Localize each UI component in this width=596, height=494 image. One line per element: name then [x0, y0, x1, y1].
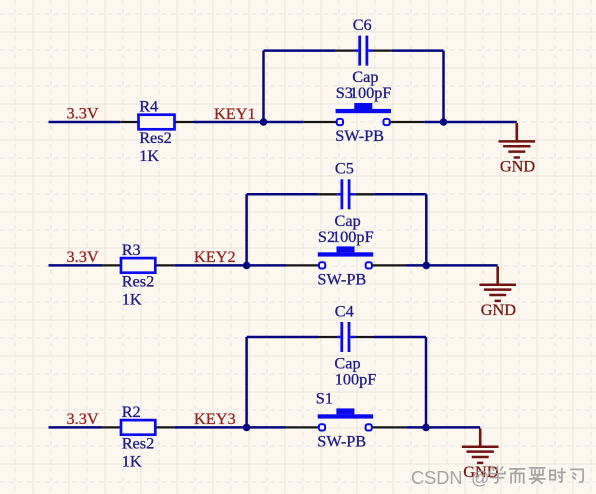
svg-text:Res2: Res2: [122, 434, 155, 453]
svg-text:R4: R4: [139, 97, 158, 116]
ground GND power port (circuit 3): [462, 428, 499, 463]
wire S1 pin 2 to GND corner: [406, 426, 480, 429]
wire net KEY2: R3 to junction: [174, 264, 246, 267]
svg-text:100pF: 100pF: [335, 370, 377, 389]
svg-text:SW-PB: SW-PB: [317, 270, 366, 289]
wire S3 pin 2 to GND corner: [424, 121, 517, 124]
wire C5 loop top left segment: [247, 193, 319, 196]
wire net KEY2: junction to S2 pin 1: [247, 264, 286, 267]
svg-text:Res2: Res2: [122, 272, 155, 291]
junction at KEY2 / C5 left: [243, 262, 251, 270]
wire net KEY3: junction to S1 pin 1: [247, 426, 286, 429]
capacitor C4: [318, 322, 374, 352]
wire C5 loop right vertical: [425, 194, 428, 266]
wire C5 loop top right segment: [374, 193, 426, 196]
resistor R2: [103, 420, 175, 435]
wire C6 loop top right segment: [392, 49, 444, 52]
switch S3 (SW-PB push button): [304, 103, 425, 125]
wire C6 loop right vertical: [442, 51, 445, 123]
wire net KEY3: R2 to junction: [174, 426, 246, 429]
svg-text:C4: C4: [335, 301, 354, 320]
svg-text:CSDN @: CSDN @: [411, 468, 489, 488]
wire C5 loop left vertical: [245, 194, 248, 266]
wire net KEY1: junction to S3 pin 1: [264, 121, 304, 124]
ground GND power port (circuit 1): [499, 123, 536, 158]
svg-text:C5: C5: [335, 159, 354, 178]
wire C4 loop top left segment: [247, 336, 318, 339]
watermark character 习: [571, 469, 583, 482]
svg-text:1K: 1K: [139, 146, 159, 165]
ground GND power port (circuit 2): [479, 266, 516, 301]
wire net 3.3V to R4 pin 1: [49, 121, 121, 124]
resistor R3: [103, 258, 175, 273]
resistor R4: [120, 115, 193, 130]
junction at KEY3 / C4 left: [243, 424, 251, 432]
svg-text:R3: R3: [122, 240, 141, 259]
junction at S2 pin 2 / C5 right: [423, 262, 431, 270]
wire C4 loop left vertical: [245, 337, 248, 428]
svg-text:Res2: Res2: [139, 128, 172, 147]
watermark character 要: [530, 468, 546, 483]
svg-text:1K: 1K: [122, 452, 142, 471]
wire net KEY1: R4 to junction: [194, 121, 264, 124]
svg-text:S1: S1: [316, 389, 333, 408]
svg-text:KEY1: KEY1: [214, 104, 256, 123]
svg-text:KEY3: KEY3: [194, 409, 236, 428]
svg-text:3.3V: 3.3V: [67, 247, 99, 266]
svg-text:1K: 1K: [122, 290, 142, 309]
wire C4 loop right vertical: [425, 337, 428, 428]
svg-text:100pF: 100pF: [350, 83, 392, 102]
svg-text:GND: GND: [481, 300, 517, 319]
watermark character 而: [510, 469, 525, 483]
svg-text:C6: C6: [353, 15, 372, 34]
wire S2 pin 2 to GND corner: [407, 264, 498, 267]
junction at S1 pin 2 / C4 right: [422, 424, 430, 432]
wire C6 loop top left segment: [264, 49, 336, 52]
wire C4 loop top right segment: [374, 336, 426, 339]
wire net 3.3V to R3 pin 1: [49, 264, 103, 267]
switch S2 (SW-PB push button): [286, 246, 407, 268]
watermark character 时: [550, 468, 565, 482]
svg-text:100pF: 100pF: [332, 227, 374, 246]
svg-text:GND: GND: [500, 156, 536, 175]
capacitor C6: [336, 36, 392, 66]
svg-text:3.3V: 3.3V: [67, 409, 99, 428]
capacitor C5: [318, 179, 374, 209]
watermark character 学: [490, 467, 506, 483]
junction at KEY1 / C6 left: [260, 118, 268, 126]
svg-text:3.3V: 3.3V: [67, 104, 99, 123]
wire net 3.3V to R2 pin 1: [49, 426, 103, 429]
junction at S3 pin 2 / C6 right: [440, 118, 448, 126]
wire C6 loop left vertical: [262, 51, 265, 123]
svg-text:SW-PB: SW-PB: [317, 432, 366, 451]
svg-text:SW-PB: SW-PB: [335, 126, 384, 145]
svg-text:KEY2: KEY2: [194, 247, 236, 266]
switch S1 (SW-PB push button): [286, 408, 407, 430]
svg-text:R2: R2: [122, 402, 141, 421]
